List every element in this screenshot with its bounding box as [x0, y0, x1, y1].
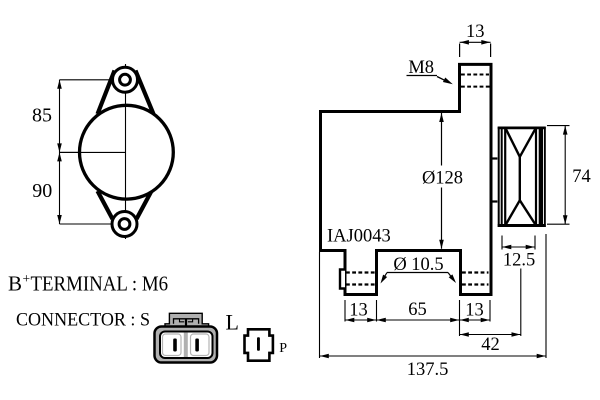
svg-text:42: 42: [481, 335, 500, 355]
svg-text:74: 74: [572, 167, 591, 187]
connector P outline: [245, 329, 273, 360]
vertical radius line: [125, 106, 127, 200]
v-groove bottom right diagonal: [520, 200, 536, 224]
dim 74 arrow down: [563, 215, 568, 224]
arrow up at 152.4: [57, 152, 62, 161]
arrow 13a left: [345, 318, 354, 323]
O128 text background: [419, 166, 466, 188]
dim 13-65-13 ext line 4: [489, 300, 491, 322]
pulley flange line 2: [501, 127, 503, 227]
O10.5 leader diagonal right: [448, 273, 454, 280]
dim 74 vertical line: [564, 126, 566, 225]
dim 137.5 arrow right: [537, 354, 546, 359]
arrow up at 79.8: [57, 80, 62, 89]
connector L inner white area: [160, 332, 213, 359]
v-groove top right diagonal: [520, 129, 536, 157]
svg-text:13: 13: [349, 301, 368, 321]
dim 74 ext line bottom: [547, 223, 570, 225]
extension line center: [60, 151, 126, 153]
dim 74 ext line top: [547, 125, 570, 127]
connector L tab center stem: [185, 319, 187, 330]
v-groove top left diagonal: [506, 129, 520, 157]
horizontal radius line: [60, 151, 126, 153]
bottom ear outer ring: [112, 212, 137, 237]
body outline: [321, 64, 492, 294]
top ear outer ring: [113, 67, 138, 92]
connector L divider: [184, 333, 188, 357]
dim 12.5 line: [502, 246, 535, 248]
M8 leader arrowhead: [443, 78, 453, 85]
dim 42 ext line right: [520, 269, 522, 337]
bottom ear leg right: [137, 191, 152, 219]
svg-text:+: +: [23, 271, 31, 286]
connector L pin left: [173, 339, 177, 352]
left foot hole dashed line 1: [346, 271, 376, 273]
dim 13 top arrow right: [481, 40, 490, 45]
svg-text:IAJ0043: IAJ0043: [327, 227, 391, 247]
connector L pin right: [195, 339, 199, 352]
dim 137.5 ext line left: [319, 252, 321, 358]
svg-text:85: 85: [32, 104, 52, 126]
dim 13-65-13 ext line 3: [459, 300, 461, 336]
dim 13 top line: [460, 41, 491, 43]
svg-text:137.5: 137.5: [407, 360, 449, 380]
pulley groove right upright: [535, 127, 537, 227]
svg-text:90: 90: [32, 180, 52, 202]
bottom ear leg left: [98, 191, 113, 219]
dim 42 arrow left: [460, 332, 469, 337]
dim 13-65-13 ext line 1: [344, 300, 346, 322]
left foot notch: [340, 270, 345, 289]
v-groove bottom left diagonal: [506, 200, 520, 224]
connector L tab inner step right: [188, 319, 193, 322]
svg-text:CONNECTOR : S: CONNECTOR : S: [16, 310, 150, 331]
extension line bottom ear: [60, 223, 125, 225]
dim 137.5 ext line right: [545, 234, 547, 358]
bottom ear inner ring: [119, 219, 130, 230]
arrow 13b right: [481, 318, 490, 323]
svg-text:12.5: 12.5: [503, 251, 535, 271]
top ear leg left: [98, 71, 115, 115]
connector L tab inner step left: [180, 319, 185, 322]
dim 13 top ext line left: [459, 44, 461, 58]
v-groove center line: [519, 156, 521, 202]
O10.5 leader arrow left: [381, 275, 388, 284]
dim 42 line: [460, 334, 521, 336]
pulley groove left upright: [504, 127, 506, 227]
M8 underline: [407, 75, 438, 77]
M8 stud dashed thread line 1: [461, 74, 489, 76]
pulley hub thick bar: [539, 127, 543, 227]
dim O128 arrow up: [439, 113, 444, 122]
dim 42 arrow right: [512, 332, 521, 337]
dim 13 top ext line right: [490, 44, 492, 58]
arrow 13a right: [367, 318, 376, 323]
left foot hole dashed line 2: [346, 283, 376, 285]
dim 13 top arrow left: [460, 40, 469, 45]
dim 12.5 ext line right: [534, 236, 536, 250]
svg-text:L: L: [226, 310, 239, 335]
pulley top edge: [498, 127, 546, 130]
dim 13-65-13 ext line 2: [376, 300, 378, 322]
connector L top tabs silhouette: [165, 313, 209, 328]
top ear leg right: [136, 71, 154, 115]
dim 12.5 ext line left: [501, 236, 503, 250]
svg-text:TERMINAL : M6: TERMINAL : M6: [31, 272, 169, 296]
pulley flange line 1: [498, 127, 500, 227]
connector L cell outline right: [191, 334, 210, 356]
svg-text:13: 13: [466, 22, 485, 42]
dim 137.5 arrow left: [320, 354, 329, 359]
arrow 65 right: [450, 318, 459, 323]
right foot hole dashed line 2: [462, 283, 489, 285]
dim 12.5 arrow right: [526, 245, 535, 250]
pulley bottom edge: [498, 224, 546, 227]
connector L body: [155, 327, 218, 363]
right foot hole dashed line 1: [462, 271, 489, 273]
svg-text:13: 13: [465, 301, 484, 321]
arrow 65 left: [377, 318, 386, 323]
connector L tab inner bracket: [174, 319, 199, 324]
svg-text:Ø128: Ø128: [422, 169, 463, 189]
extension line top ear: [60, 79, 126, 81]
dim 12.5 arrow left: [502, 245, 511, 250]
pulley right edge line: [544, 127, 546, 227]
O10.5 leader arrow right: [449, 274, 456, 283]
dim O128 arrow down: [439, 240, 444, 249]
svg-text:65: 65: [408, 300, 427, 320]
shaft stub bottom: [492, 200, 498, 202]
O10.5 leader diagonal left: [383, 273, 388, 281]
svg-text:P: P: [279, 341, 287, 356]
arrow 13b left: [460, 318, 469, 323]
O10.5 leader horizontal: [387, 272, 448, 274]
dim 137.5 line: [320, 355, 547, 357]
dim line 13-65-13: [345, 319, 490, 321]
M8 stud dashed thread line 2: [461, 86, 490, 88]
connector L cell outline left: [163, 334, 182, 356]
top ear inner ring: [120, 74, 131, 85]
connector P pin: [257, 337, 260, 351]
dim 74 arrow up: [563, 126, 568, 135]
svg-text:B: B: [8, 272, 22, 296]
arrow down at 152.4: [57, 143, 62, 152]
M8 leader line: [437, 77, 448, 82]
main circle body: [80, 105, 174, 199]
arrow down at 224: [57, 215, 62, 224]
centerline vertical front view: [125, 64, 127, 239]
dimension line 85/90 vertical: [59, 80, 61, 224]
shaft stub top: [492, 157, 498, 159]
dim O128 vertical line: [441, 113, 443, 249]
